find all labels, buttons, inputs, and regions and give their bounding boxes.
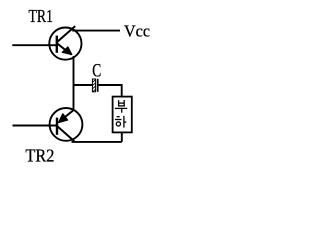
- wire: capacitor to load corner: [99, 85, 122, 97]
- svg-text:TR1: TR1: [29, 6, 54, 26]
- wire: TR1 base lead from left: [12, 44, 56, 46]
- transistor TR1 base bar: [56, 36, 58, 53]
- wire: TR2 base lead from left: [13, 125, 57, 127]
- transistor TR1 circle: [49, 27, 81, 59]
- wire: vertical emitter-to-TR2 wire: [73, 56, 75, 111]
- transistor TR2 base bar: [56, 118, 58, 135]
- transistor TR2 circle: [50, 108, 83, 141]
- transistor TR1 emitter arrowhead: [62, 47, 72, 55]
- node: output junction to capacitor: [74, 84, 93, 86]
- wire: bottom return wire: [72, 141, 122, 143]
- load glyph 부: [115, 100, 128, 113]
- svg-text:TR2: TR2: [25, 145, 54, 165]
- capacitor C right plate: [97, 79, 99, 92]
- transistor TR2 collector diagonal: [58, 126, 75, 141]
- transistor TR1 emitter diagonal: [57, 43, 72, 54]
- svg-text:Vcc: Vcc: [124, 22, 150, 41]
- wire: load bottom lead: [121, 132, 123, 142]
- load box: [113, 97, 132, 133]
- transistor TR1 collector diagonal: [57, 26, 75, 42]
- load glyph 하: [115, 116, 126, 128]
- capacitor C left plate (hatched): [92, 79, 95, 92]
- transistor TR2 emitter arrowhead: [59, 114, 68, 123]
- transistor TR2 emitter diagonal (from top wire): [61, 110, 74, 121]
- wire: Vcc rail: [72, 30, 120, 32]
